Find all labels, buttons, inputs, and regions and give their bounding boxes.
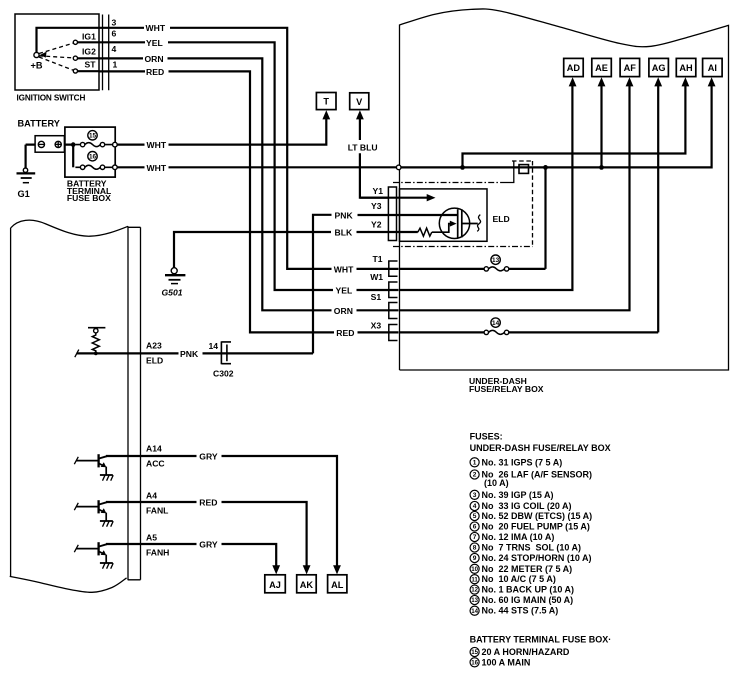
svg-text:ELD: ELD <box>493 214 510 224</box>
svg-text:6: 6 <box>112 28 117 38</box>
svg-text:1: 1 <box>113 59 118 69</box>
svg-text:AG: AG <box>652 63 666 73</box>
svg-text:YEL: YEL <box>336 286 353 296</box>
svg-text:AI: AI <box>708 63 717 73</box>
svg-text:FANL: FANL <box>146 505 168 515</box>
svg-text:No. 24 STOP/HORN (10 A): No. 24 STOP/HORN (10 A) <box>482 553 592 563</box>
svg-text:13: 13 <box>471 597 478 604</box>
svg-text:T1: T1 <box>373 254 383 264</box>
svg-text:G1: G1 <box>18 189 30 199</box>
svg-text:RED: RED <box>199 498 217 508</box>
svg-text:15: 15 <box>89 133 97 140</box>
svg-text:4: 4 <box>473 503 477 510</box>
svg-text:7: 7 <box>473 534 477 541</box>
svg-text:No 10 A/C (7 5 A): No 10 A/C (7 5 A) <box>482 574 556 584</box>
svg-text:AH: AH <box>679 63 693 73</box>
svg-text:W1: W1 <box>370 272 383 282</box>
svg-text:14: 14 <box>492 320 500 327</box>
svg-text:4: 4 <box>112 44 117 54</box>
svg-text:16: 16 <box>471 659 478 666</box>
svg-text:No 22 METER (7 5 A): No 22 METER (7 5 A) <box>482 564 573 574</box>
svg-text:A4: A4 <box>146 490 157 500</box>
svg-text:2: 2 <box>473 472 477 479</box>
svg-text:Y2: Y2 <box>371 219 382 229</box>
svg-text:+B: +B <box>31 61 43 71</box>
svg-text:No 33 IG COIL (20 A): No 33 IG COIL (20 A) <box>482 501 572 511</box>
svg-text:9: 9 <box>473 555 477 562</box>
svg-text:GRY: GRY <box>199 540 218 550</box>
svg-text:AK: AK <box>300 580 314 590</box>
svg-text:T: T <box>323 97 329 107</box>
svg-text:G501: G501 <box>162 288 183 298</box>
svg-text:IG2: IG2 <box>82 47 96 57</box>
svg-text:UNDER-DASH FUSE/RELAY BOX: UNDER-DASH FUSE/RELAY BOX <box>470 443 611 453</box>
svg-text:ST: ST <box>85 59 97 69</box>
svg-text:No. 39 IGP (15 A): No. 39 IGP (15 A) <box>482 490 554 500</box>
svg-text:C302: C302 <box>213 369 234 379</box>
svg-text:ACC: ACC <box>146 459 165 469</box>
svg-text:15: 15 <box>471 649 478 656</box>
svg-text:13: 13 <box>492 257 500 264</box>
svg-text:BLK: BLK <box>335 228 353 238</box>
svg-text:AE: AE <box>595 63 608 73</box>
svg-text:6: 6 <box>473 524 477 531</box>
svg-text:AJ: AJ <box>269 580 281 590</box>
svg-text:Y3: Y3 <box>371 201 382 211</box>
svg-text:5: 5 <box>473 513 477 520</box>
svg-text:12: 12 <box>471 587 478 594</box>
svg-text:RED: RED <box>336 328 354 338</box>
svg-text:A5: A5 <box>146 532 157 542</box>
svg-text:(10 A): (10 A) <box>484 478 509 488</box>
svg-text:S1: S1 <box>371 292 382 302</box>
svg-text:No. 44 STS (7.5 A): No. 44 STS (7.5 A) <box>482 606 559 616</box>
svg-text:GRY: GRY <box>199 452 218 462</box>
svg-text:AL: AL <box>331 580 344 590</box>
svg-text:IGNITION SWITCH: IGNITION SWITCH <box>17 94 86 103</box>
svg-text:YEL: YEL <box>146 38 163 48</box>
svg-text:PNK: PNK <box>180 349 199 359</box>
svg-text:ELD: ELD <box>146 355 163 365</box>
svg-text:No. 12 IMA (10 A): No. 12 IMA (10 A) <box>482 532 555 542</box>
svg-text:3: 3 <box>473 492 477 499</box>
svg-text:10: 10 <box>471 566 478 573</box>
svg-text:ORN: ORN <box>334 306 353 316</box>
svg-text:BATTERY TERMINAL FUSE BOX·: BATTERY TERMINAL FUSE BOX· <box>470 634 612 644</box>
svg-text:PNK: PNK <box>335 210 354 220</box>
svg-text:No. 52 DBW (ETCS) (15 A): No. 52 DBW (ETCS) (15 A) <box>482 511 593 521</box>
svg-text:1: 1 <box>473 459 477 466</box>
svg-text:FUSES:: FUSES: <box>470 432 503 442</box>
svg-text:No. 1 BACK UP (10 A): No. 1 BACK UP (10 A) <box>482 585 575 595</box>
svg-text:V: V <box>356 97 363 107</box>
svg-text:FUSE/RELAY BOX: FUSE/RELAY BOX <box>469 384 544 394</box>
svg-text:No. 31 IGPS (7 5 A): No. 31 IGPS (7 5 A) <box>482 457 563 467</box>
svg-text:Y1: Y1 <box>373 186 384 196</box>
svg-text:100 A MAIN: 100 A MAIN <box>482 657 531 667</box>
svg-text:A14: A14 <box>146 444 162 454</box>
svg-text:A23: A23 <box>146 340 162 350</box>
svg-text:IG1: IG1 <box>82 32 96 42</box>
svg-text:FUSE BOX: FUSE BOX <box>67 193 111 203</box>
svg-text:8: 8 <box>473 545 477 552</box>
svg-text:ORN: ORN <box>145 54 164 64</box>
svg-text:RED: RED <box>146 67 164 77</box>
svg-text:No 7 TRNS SOL (10 A): No 7 TRNS SOL (10 A) <box>482 543 582 553</box>
svg-text:AF: AF <box>624 63 637 73</box>
svg-text:No 20 FUEL PUMP (15 A): No 20 FUEL PUMP (15 A) <box>482 522 590 532</box>
svg-text:14: 14 <box>471 608 478 615</box>
svg-text:16: 16 <box>89 154 97 161</box>
svg-text:X3: X3 <box>371 321 382 331</box>
svg-text:LT BLU: LT BLU <box>348 142 378 152</box>
svg-text:No. 60 IG MAIN (50 A): No. 60 IG MAIN (50 A) <box>482 595 574 605</box>
svg-text:20 A HORN/HAZARD: 20 A HORN/HAZARD <box>482 647 570 657</box>
svg-text:BATTERY: BATTERY <box>18 119 60 129</box>
svg-text:WHT: WHT <box>147 140 167 150</box>
svg-text:14: 14 <box>209 341 219 351</box>
svg-text:WHT: WHT <box>146 23 166 33</box>
svg-text:3: 3 <box>112 18 117 28</box>
svg-text:FANH: FANH <box>146 548 169 558</box>
svg-text:11: 11 <box>471 576 478 583</box>
svg-text:WHT: WHT <box>147 163 167 173</box>
svg-text:AD: AD <box>567 63 581 73</box>
svg-text:WHT: WHT <box>334 264 354 274</box>
